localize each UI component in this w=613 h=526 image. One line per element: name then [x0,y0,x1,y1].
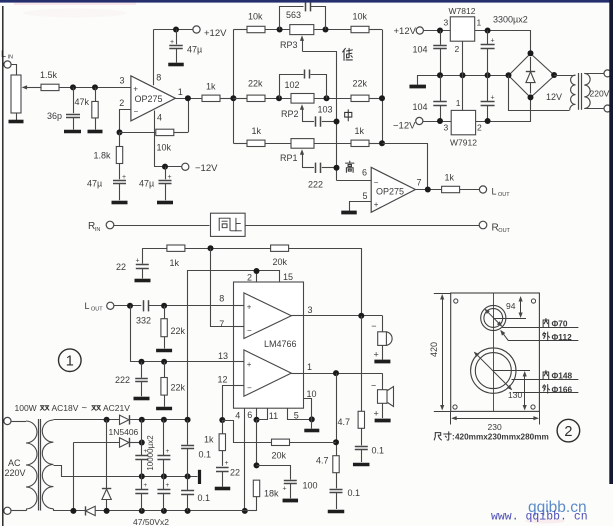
svg-text:3: 3 [444,123,449,133]
svg-text:−12V: −12V [393,120,416,131]
svg-text:+: + [374,200,379,209]
svg-text:+12V: +12V [204,28,227,39]
svg-text:L: L [492,187,497,197]
svg-text:L: L [85,301,90,311]
svg-text:2: 2 [119,98,124,108]
svg-text:15: 15 [283,272,293,282]
svg-text:22k: 22k [353,79,368,89]
svg-text:−: − [247,384,252,393]
svg-text:47µ: 47µ [87,179,102,189]
svg-text:47µ: 47µ [139,179,154,189]
svg-text:1: 1 [178,87,183,97]
svg-text:www. qqibb. cn: www. qqibb. cn [491,511,588,524]
svg-text:OUT: OUT [498,192,510,198]
svg-text:94: 94 [506,301,516,311]
svg-text:L: L [1,49,6,59]
svg-text:W7812: W7812 [449,6,476,16]
svg-text:20k: 20k [273,257,288,267]
svg-text:+: + [374,350,379,360]
svg-text:+: + [166,482,170,489]
svg-text:LM4766: LM4766 [264,339,297,349]
svg-text:+: + [122,174,126,181]
svg-text:+: + [166,448,170,455]
svg-text:0.1: 0.1 [199,450,212,460]
svg-text:+: + [374,409,379,419]
svg-text:332: 332 [136,316,151,326]
svg-text:Φ166: Φ166 [552,384,573,394]
svg-text:4: 4 [157,113,162,123]
svg-text:+12V: +12V [394,26,417,37]
svg-text:−: − [247,326,252,335]
svg-text:10: 10 [307,389,317,399]
svg-text:1k: 1k [170,258,180,268]
svg-text:36p: 36p [47,111,62,121]
svg-text:6: 6 [362,168,367,178]
svg-text:OUT: OUT [91,307,103,313]
svg-text:13: 13 [218,351,228,361]
svg-text:12V: 12V [546,92,562,102]
svg-text:1N5406: 1N5406 [109,427,139,437]
svg-text:420mmx230mmx280mm: 420mmx230mmx280mm [455,432,549,441]
svg-text:4.7: 4.7 [316,456,329,466]
svg-text:8: 8 [156,73,161,83]
svg-text:1: 1 [66,353,74,369]
svg-text:104: 104 [413,102,428,112]
svg-text:+: + [135,258,139,265]
svg-text:Φ70: Φ70 [552,318,568,328]
svg-text:22k: 22k [248,79,263,89]
svg-text:−: − [374,178,379,187]
svg-text:1.5k: 1.5k [40,70,58,80]
svg-text:+: + [224,460,228,467]
svg-text:10k: 10k [157,143,172,153]
svg-text:1k: 1k [206,82,216,92]
svg-text:2: 2 [564,424,572,440]
svg-text:−12V: −12V [195,163,218,174]
svg-text:22k: 22k [171,383,186,393]
svg-text:AC21V: AC21V [103,403,130,413]
svg-text:222: 222 [308,180,323,190]
svg-text:IN: IN [95,227,101,233]
svg-text:OUT: OUT [498,228,510,234]
svg-text:−: − [371,321,376,331]
svg-text:5: 5 [363,191,368,201]
svg-text:420: 420 [429,342,439,357]
svg-text:+: + [167,174,171,181]
svg-text:22k: 22k [171,326,186,336]
svg-text:1k: 1k [355,126,365,136]
svg-text:47/50Vx2: 47/50Vx2 [133,517,169,526]
svg-text:47k: 47k [75,97,90,107]
svg-text:102: 102 [285,80,300,90]
svg-text:3300µx2: 3300µx2 [493,15,528,25]
svg-text:1k: 1k [204,435,214,445]
svg-text:0.1: 0.1 [198,493,211,503]
svg-text:563: 563 [286,10,301,20]
svg-text:22: 22 [230,468,240,478]
svg-text:220V: 220V [590,88,610,98]
svg-text:103: 103 [318,105,333,115]
svg-text:2: 2 [247,273,252,283]
svg-text:1: 1 [477,18,482,28]
svg-text:−: − [371,381,376,391]
svg-text:1k: 1k [445,173,455,183]
svg-text:OP275: OP275 [376,186,404,196]
svg-text:~: ~ [82,403,88,414]
svg-text:4: 4 [235,411,240,421]
svg-text:+: + [490,95,494,102]
svg-text:22: 22 [116,262,126,272]
svg-text:3: 3 [120,76,125,86]
svg-text:OP275: OP275 [135,94,163,104]
svg-text:47µ: 47µ [187,45,202,55]
svg-text:7: 7 [219,319,224,329]
svg-text:10k: 10k [353,12,368,22]
svg-text:8: 8 [219,294,224,304]
svg-text:AC18V: AC18V [52,403,79,413]
svg-text:+: + [247,303,252,312]
svg-text:6: 6 [247,410,252,420]
svg-text:1.8k: 1.8k [94,151,112,161]
svg-text:RP2: RP2 [281,109,299,119]
svg-text:100W: 100W [15,403,37,413]
svg-text:104: 104 [413,45,428,55]
svg-text:220V: 220V [5,468,26,478]
svg-text:1: 1 [456,98,461,108]
svg-text:AC: AC [8,458,21,468]
svg-text:18k: 18k [264,489,279,499]
svg-text:RP3: RP3 [280,40,298,50]
svg-text:10000µx2: 10000µx2 [146,435,155,471]
svg-text:100: 100 [303,481,318,491]
svg-text:3: 3 [444,18,449,28]
svg-text:0.1: 0.1 [372,446,385,456]
svg-text:7: 7 [417,178,422,188]
svg-text:RP1: RP1 [280,153,298,163]
svg-text:222: 222 [115,375,130,385]
svg-text:3: 3 [308,305,313,315]
svg-text:0.1: 0.1 [348,488,361,498]
svg-text:+: + [133,84,138,93]
svg-text:+: + [490,38,494,45]
svg-text:12: 12 [218,375,228,385]
svg-text:−: − [134,107,139,116]
svg-text:Φ148: Φ148 [552,370,573,380]
svg-text:1k: 1k [252,126,262,136]
svg-text:4.7: 4.7 [338,417,351,427]
svg-text:+: + [247,360,252,369]
svg-text:+: + [143,482,147,489]
svg-text:230: 230 [488,422,502,432]
svg-text:IN: IN [8,55,14,61]
svg-text:+: + [282,486,286,493]
svg-text:+: + [170,39,174,46]
svg-text:11: 11 [269,411,278,421]
svg-text:10k: 10k [248,12,263,22]
svg-text:130: 130 [508,390,522,400]
svg-text:20k: 20k [272,451,287,461]
svg-text:2: 2 [477,122,482,132]
svg-text:2: 2 [455,44,460,54]
svg-text:W7912: W7912 [450,138,477,148]
svg-text:Φ112: Φ112 [552,332,573,342]
svg-text:1: 1 [307,362,312,372]
